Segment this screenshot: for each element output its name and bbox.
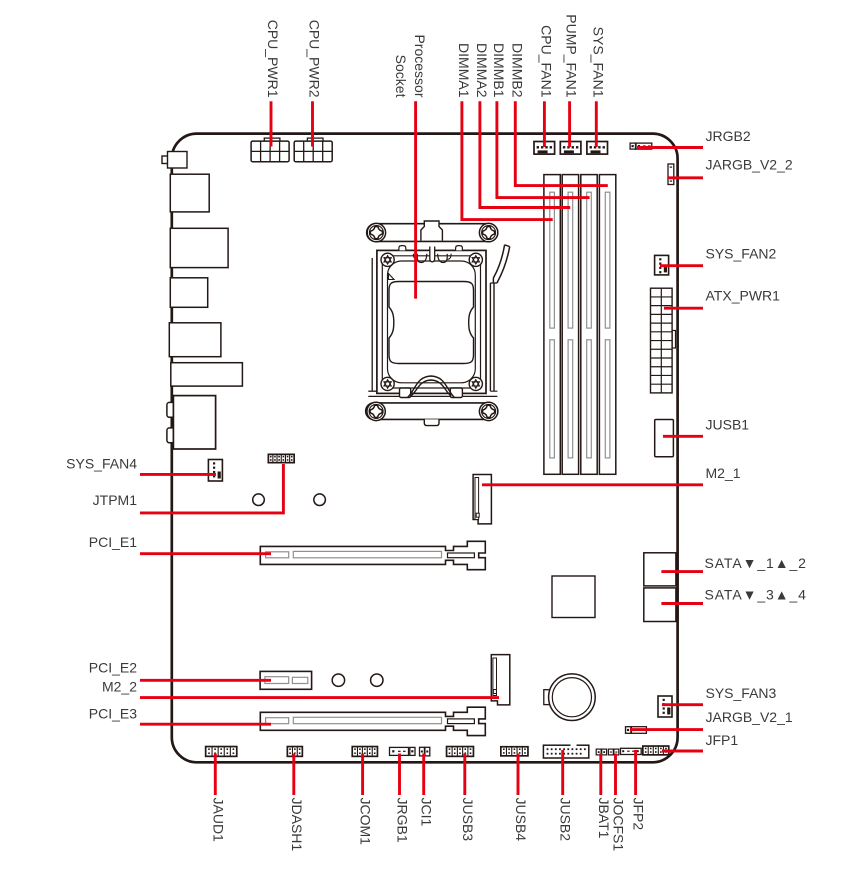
svg-text:M2_1: M2_1 <box>706 465 741 481</box>
socket bottom retention bar <box>366 403 498 420</box>
battery <box>544 674 595 721</box>
mounting hole right <box>314 494 326 506</box>
svg-text:JBAT1: JBAT1 <box>596 798 612 839</box>
socket lever outer <box>497 247 509 283</box>
socket top tab <box>421 221 443 241</box>
socket screw bottom-right <box>479 402 497 420</box>
svg-text:JUSB4: JUSB4 <box>513 798 529 842</box>
connector JDASH1 <box>287 746 304 758</box>
svg-text:JOCFS1: JOCFS1 <box>611 798 627 852</box>
io port small top-left <box>168 152 188 169</box>
socket frame inner rounded <box>388 261 476 383</box>
callout line JFP2 <box>634 750 637 795</box>
connector CPU_PWR1 <box>251 138 289 162</box>
connector SYS_FAN4 <box>208 460 222 482</box>
callout line DIMMB1 <box>497 101 590 197</box>
io port F audio with bumps <box>167 396 216 449</box>
svg-text:CPU_PWR2: CPU_PWR2 <box>307 20 323 98</box>
connector JCI1 <box>420 747 430 756</box>
socket top retention bar <box>367 224 498 242</box>
connector M2_1 <box>473 475 491 524</box>
socket clip bump left <box>399 246 406 251</box>
motherboard outline <box>172 134 678 763</box>
svg-text:DIMMA1: DIMMA1 <box>456 43 472 98</box>
socket torx bottom-right <box>469 377 482 390</box>
callout line DIMMA2 <box>480 101 570 207</box>
svg-text:JARGB_V2_1: JARGB_V2_1 <box>706 709 793 725</box>
connector JAUD1 <box>205 746 238 758</box>
connector JTPM1 <box>268 454 296 464</box>
connector SYS_FAN3 <box>658 696 672 717</box>
CPU socket Processor Socket <box>366 221 510 426</box>
DIMMA1 slot <box>544 175 560 475</box>
socket clip small right <box>447 254 451 259</box>
svg-text:DIMMB1: DIMMB1 <box>491 43 507 98</box>
svg-text:JCI1: JCI1 <box>419 798 435 827</box>
PCI_E2 slot x1 <box>260 671 312 689</box>
svg-text:JUSB1: JUSB1 <box>706 417 750 433</box>
socket track joins <box>490 283 497 391</box>
socket torx top-right <box>469 253 482 266</box>
callout line JFP1 <box>662 750 703 753</box>
connector JOCFS1 <box>608 749 618 755</box>
socket track outer <box>493 283 495 391</box>
svg-text:JAUD1: JAUD1 <box>210 798 226 843</box>
connector JUSB2 19-pin <box>543 744 588 758</box>
callout line ATX_PWR1 <box>664 307 703 310</box>
connector JCOM1 <box>351 746 378 758</box>
connector SATA 3 4 <box>644 588 676 622</box>
callout line JUSB1 <box>663 435 703 438</box>
connector JFP2 <box>621 748 642 754</box>
svg-text:SATA▼_1▲_2: SATA▼_1▲_2 <box>705 555 807 571</box>
mounting hole lower-left <box>332 674 344 686</box>
svg-text:JRGB1: JRGB1 <box>395 798 411 843</box>
svg-text:JFP2: JFP2 <box>631 798 647 831</box>
callout line CPU_PWR2 <box>311 101 314 146</box>
callout line PCI_E1 <box>140 552 271 555</box>
svg-text:SYS_FAN2: SYS_FAN2 <box>706 246 777 262</box>
svg-text:JUSB2: JUSB2 <box>558 798 574 842</box>
svg-text:Processor: Processor <box>412 34 428 97</box>
connector PUMP_FAN1 <box>560 142 581 155</box>
callout line JARGB_V2_2 <box>668 176 703 179</box>
svg-text:DIMMB2: DIMMB2 <box>509 43 525 98</box>
socket foot left <box>400 388 411 398</box>
connector ATX_PWR1 24-pin <box>651 288 676 393</box>
svg-text:SYS_FAN3: SYS_FAN3 <box>706 685 777 701</box>
svg-text:JTPM1: JTPM1 <box>93 492 138 508</box>
svg-text:JDASH1: JDASH1 <box>289 798 305 852</box>
callout line JRGB2 <box>637 146 703 149</box>
connector CPU_FAN1 <box>534 142 555 155</box>
socket frame inner line <box>382 256 480 388</box>
io port A <box>170 174 209 212</box>
socket clip hook right <box>438 254 448 263</box>
callout line JUSB2 <box>561 750 564 795</box>
io port nub top-left <box>162 156 169 164</box>
callout line Processor Socket <box>414 101 417 298</box>
svg-text:JUSB3: JUSB3 <box>460 798 476 842</box>
connector JARGB_V2_1 <box>626 727 647 734</box>
socket clip bump right <box>456 246 463 251</box>
socket frame bottom-left lip <box>368 390 377 392</box>
callout line JCOM1 <box>361 754 364 796</box>
socket CPU pad <box>389 282 474 364</box>
socket bottom tab <box>424 419 439 425</box>
socket torx bottom-left <box>381 377 394 390</box>
svg-text:ATX_PWR1: ATX_PWR1 <box>706 288 781 304</box>
socket screw top-right <box>479 223 497 241</box>
socket spring inner <box>411 380 452 396</box>
connector JUSB4 <box>500 746 529 757</box>
callout line PCI_E2 <box>140 679 271 682</box>
svg-text:JRGB2: JRGB2 <box>706 128 751 144</box>
socket foot right <box>450 388 462 398</box>
callout line JAUD1 <box>214 754 217 796</box>
connector JRGB1 <box>390 747 416 755</box>
io port E wide <box>171 363 243 386</box>
callout line DIMMB2 <box>515 101 608 185</box>
socket frame bottom lip line <box>368 395 497 397</box>
callout line JARGB_V2_1 <box>630 728 703 731</box>
socket pin1 triangle <box>389 274 395 280</box>
socket screw top-left <box>367 223 385 241</box>
mounting hole left <box>253 494 265 506</box>
callout line SYS_FAN4 <box>140 473 216 476</box>
callout line JUSB3 <box>463 754 466 796</box>
callout line SYS_FAN3 <box>662 703 703 706</box>
svg-text:Socket: Socket <box>393 55 409 98</box>
svg-text:DIMMA2: DIMMA2 <box>474 43 490 98</box>
callout line SATA 1 2 <box>661 570 703 573</box>
callout line DIMMA1 <box>462 101 553 219</box>
socket screw bottom-left <box>367 402 385 420</box>
callout line JBAT1 <box>599 754 602 796</box>
callout line JDASH1 <box>292 754 295 796</box>
svg-text:SYS_FAN1: SYS_FAN1 <box>590 27 606 98</box>
socket frame outer <box>377 250 486 393</box>
socket clip center pin <box>430 247 435 262</box>
svg-text:JFP1: JFP1 <box>706 732 739 748</box>
connector SYS_FAN1 <box>587 142 608 155</box>
callout line JUSB4 <box>517 754 520 796</box>
callout line JOCFS1 <box>614 754 617 796</box>
connector JUSB1 <box>655 420 674 457</box>
callout line CPU_FAN1 <box>543 101 546 147</box>
socket track inner <box>489 283 491 391</box>
svg-text:M2_2: M2_2 <box>102 679 137 695</box>
DIMMB1 slot <box>581 175 597 475</box>
svg-text:SATA▼_3▲_4: SATA▼_3▲_4 <box>705 587 807 603</box>
callout line M2_1 <box>482 483 703 486</box>
io port C <box>170 278 207 308</box>
socket lever tip <box>505 245 510 247</box>
callout line JRGB1 <box>398 754 401 796</box>
PCI_E3 slot x16 <box>260 707 485 735</box>
DIMMA2 slot <box>562 175 578 475</box>
callout line SYS_FAN2 <box>660 264 703 267</box>
socket torx top-left <box>381 253 394 266</box>
connector JBAT1 <box>596 749 606 755</box>
connector CPU_PWR2 <box>294 138 332 162</box>
io port D <box>169 323 221 357</box>
connector SYS_FAN2 <box>655 255 669 275</box>
svg-text:PCI_E3: PCI_E3 <box>89 706 137 722</box>
socket frame left lip <box>371 258 373 391</box>
socket spring outer <box>408 376 455 398</box>
svg-text:PUMP_FAN1: PUMP_FAN1 <box>564 14 580 97</box>
callout line PUMP_FAN1 <box>568 101 571 147</box>
callout line CPU_PWR1 <box>270 101 273 146</box>
svg-text:CPU_FAN1: CPU_FAN1 <box>538 25 554 98</box>
connector JUSB3 <box>446 746 475 758</box>
socket clip small left <box>413 254 417 259</box>
connector M2_2 <box>491 655 510 705</box>
connector JRGB2 <box>630 143 652 149</box>
connector JFP1 <box>642 745 670 756</box>
chipset heatsink <box>552 576 595 618</box>
callout line SYS_FAN1 <box>595 101 598 147</box>
svg-text:PCI_E1: PCI_E1 <box>89 534 137 550</box>
mounting hole lower-right <box>371 674 383 686</box>
io port B <box>170 228 228 267</box>
callout line JTPM1 <box>140 464 283 513</box>
PCI_E1 slot x16 <box>260 541 485 569</box>
svg-text:CPU_PWR1: CPU_PWR1 <box>265 20 281 98</box>
callout line M2_2 <box>140 696 499 699</box>
callout line SATA 3 4 <box>661 602 703 605</box>
svg-text:JCOM1: JCOM1 <box>358 798 374 846</box>
DIMMB2 slot <box>599 175 615 475</box>
connector JARGB_V2_2 <box>668 164 674 185</box>
callout line PCI_E3 <box>140 723 271 726</box>
svg-text:PCI_E2: PCI_E2 <box>89 660 137 676</box>
svg-text:SYS_FAN4: SYS_FAN4 <box>66 456 137 472</box>
svg-text:JARGB_V2_2: JARGB_V2_2 <box>706 157 793 173</box>
socket clip hook left <box>417 254 427 263</box>
callout line JCI1 <box>422 754 425 796</box>
connector SATA 1 2 <box>644 553 676 586</box>
socket lever inner <box>493 245 504 283</box>
